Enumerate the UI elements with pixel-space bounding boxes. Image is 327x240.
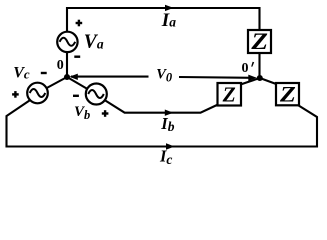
svg-text:V0: V0 [156,66,173,84]
svg-text:Ib: Ib [160,114,174,134]
svg-text:0: 0 [242,61,249,76]
svg-text:Ic: Ic [159,147,172,168]
svg-text:Vc: Vc [13,65,30,82]
svg-text:Va: Va [84,31,104,52]
svg-text:Z: Z [222,83,236,107]
svg-text:Z: Z [279,82,296,107]
svg-text:Ia: Ia [161,10,176,31]
svg-text:Vb: Vb [74,104,90,122]
svg-text:Z: Z [250,30,268,55]
svg-text:0: 0 [57,58,64,73]
